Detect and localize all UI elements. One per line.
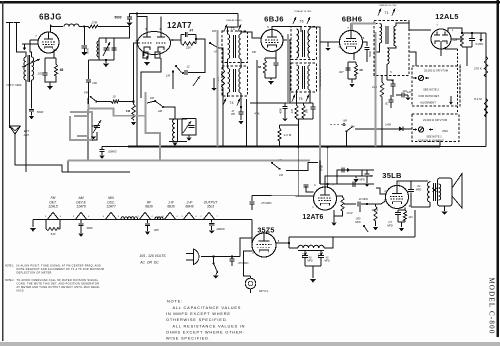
gray trace x320 <box>319 90 321 147</box>
text 105-125 VOLTS <box>139 254 166 258</box>
cap .25MFD <box>249 196 254 211</box>
wire 35Z5 out right <box>276 242 289 244</box>
filament label 12AT7 <box>106 196 116 208</box>
text see note 1 <box>426 135 442 139</box>
cap .005 fil <box>145 220 150 232</box>
wire T4 bottom out <box>228 93 242 107</box>
wire pilot feed <box>243 251 252 276</box>
junction 220 bus <box>381 145 383 147</box>
T3 core <box>233 35 235 58</box>
svg-text:47: 47 <box>370 174 373 178</box>
wire V2 gridA left <box>134 43 141 104</box>
ground railA cap <box>126 23 132 27</box>
resistor 270K <box>484 56 487 78</box>
label probe2 <box>460 86 462 98</box>
svg-text:EXT: EXT <box>24 129 30 133</box>
label 250MA <box>441 130 448 133</box>
T1 pin5 label <box>390 70 392 74</box>
resistor 280 T3 <box>221 60 224 147</box>
svg-text:12AL5: 12AL5 <box>435 12 458 21</box>
ground V6 k <box>331 223 337 226</box>
wire V2 plate loop <box>171 39 182 41</box>
align box A <box>412 66 460 106</box>
svg-text:NOTE 2.: NOTE 2. <box>5 279 15 282</box>
label 47 belowT1 <box>391 79 395 83</box>
resistor .27M <box>88 25 99 28</box>
label 470K rot <box>320 165 324 171</box>
text note2 block <box>5 279 100 293</box>
svg-text:MODEL C-800: MODEL C-800 <box>488 277 496 334</box>
V2 pin3 box <box>155 52 160 58</box>
loop antenna spiral inner <box>74 116 88 136</box>
svg-text:NOTE 1.: NOTE 1. <box>5 265 15 268</box>
wire y101 run2 <box>120 101 134 103</box>
plug cord <box>201 256 240 258</box>
wire V4 cathode <box>353 54 355 61</box>
svg-text:270 K: 270 K <box>474 67 482 71</box>
cap .01MFD V6 <box>358 198 368 207</box>
filament heater at 170 <box>165 212 176 219</box>
resistor 22K <box>181 42 196 46</box>
tune sym T3 <box>224 25 241 32</box>
ground fil left <box>30 228 36 232</box>
wire V1 grid left <box>30 39 38 41</box>
pin numbers fil <box>45 216 219 218</box>
OT primary coil <box>428 181 431 207</box>
label 5000 rot <box>86 47 90 54</box>
V2 triode A grid <box>142 42 152 44</box>
cap right branch <box>111 48 116 50</box>
V8 pin3 <box>398 182 400 186</box>
svg-text:510: 510 <box>51 232 56 236</box>
junction cap05 <box>231 255 233 257</box>
wire plug riser <box>240 238 252 256</box>
resistor 120 V8 <box>403 210 406 222</box>
svg-text:5000: 5000 <box>37 110 44 114</box>
tune sym T5 <box>292 95 309 102</box>
wire V3 screen down <box>283 40 290 103</box>
wire ext ant down <box>15 141 62 172</box>
svg-text:25,000 Ω OR VTVM: 25,000 Ω OR VTVM <box>424 69 449 73</box>
tube V4 6BH6 <box>340 31 363 54</box>
filament bus wire <box>33 219 252 221</box>
V2 pin8 box <box>143 52 148 58</box>
T4 primary coil <box>228 68 230 93</box>
wire y195 run <box>252 195 314 198</box>
wire y120 collect <box>297 119 314 125</box>
svg-text:ALIGNMENT: ALIGNMENT <box>420 101 436 105</box>
svg-text:TUNE AT 455KC.: TUNE AT 455KC. <box>226 19 243 22</box>
svg-text:22K: 22K <box>186 46 191 50</box>
svg-text:.02: .02 <box>417 184 421 188</box>
wire V3 k net <box>265 58 276 62</box>
ground arrow x214 <box>211 78 216 91</box>
border frame top <box>0 1 500 4</box>
wire y204 coupling <box>344 203 356 205</box>
label AT PRI <box>231 110 236 116</box>
cap 25MFD V8 <box>395 210 401 222</box>
osc coil <box>173 119 178 142</box>
wire L1 left top <box>17 23 27 58</box>
switch on y160 <box>271 162 281 170</box>
ground V8 k <box>399 228 405 231</box>
trimmer box frame <box>99 38 114 60</box>
cap 5000 antenna <box>29 109 34 115</box>
junction coup <box>366 203 368 205</box>
wire V5 diode lower <box>440 49 442 56</box>
line switch <box>213 257 219 274</box>
wire V3 k gnd <box>265 78 276 80</box>
svg-text:12: 12 <box>186 65 190 69</box>
svg-text:100,000Ω: 100,000Ω <box>460 64 462 74</box>
svg-text:120: 120 <box>402 89 407 93</box>
meter A <box>418 75 423 80</box>
svg-text:AT: AT <box>231 110 235 113</box>
label 470 rot <box>291 108 294 113</box>
label 5MFD <box>475 42 484 46</box>
coil in trimmer box <box>97 41 99 57</box>
meter B probes <box>413 128 433 131</box>
wire plate to coil <box>50 25 63 27</box>
arrow in box A <box>449 96 453 105</box>
text 25000 <box>424 69 449 73</box>
wire V2 cathodes gnd <box>144 50 147 60</box>
wire coupling on <box>361 203 374 205</box>
dashed probe line <box>457 49 459 112</box>
wire T3 top entry <box>227 29 229 34</box>
text tune T6 <box>294 10 312 13</box>
label 1M small <box>166 74 171 78</box>
cap V3 k <box>273 63 278 78</box>
wire V6 grid cap <box>306 161 320 193</box>
label 4000 rot <box>280 108 283 114</box>
svg-text:+: + <box>302 252 304 256</box>
svg-text:35LB: 35LB <box>382 171 402 180</box>
svg-text:470K: 470K <box>320 165 324 171</box>
T6 dashed box <box>291 27 317 60</box>
text tune T1 <box>379 4 398 7</box>
wire x298 feeder <box>297 147 299 196</box>
svg-text:.01 MFD: .01 MFD <box>355 179 365 182</box>
V7 pin1 <box>252 251 254 255</box>
ground V3 <box>268 81 274 85</box>
wire caps common <box>305 266 321 278</box>
label AM sw1 <box>213 50 219 54</box>
svg-text:.5 MFD: .5 MFD <box>475 42 484 46</box>
text AC OR DC <box>139 261 159 265</box>
T5 core <box>302 66 304 89</box>
wire y101 run <box>96 101 111 103</box>
loop antenna spiral outer <box>70 112 92 140</box>
svg-text:ANT.: ANT. <box>23 133 30 137</box>
tube V7 35Z5 <box>252 233 276 257</box>
label 22K V5 <box>452 38 458 42</box>
svg-text:MFD: MFD <box>355 221 361 224</box>
wire s2 <box>147 101 175 119</box>
gray trace y160 <box>68 160 310 162</box>
ground V1 cathode <box>47 86 53 90</box>
ground 47 deemph <box>364 184 370 187</box>
wire top rail A <box>130 13 239 15</box>
wire V4 plate up <box>351 24 378 31</box>
label 47 deemph <box>370 174 373 178</box>
wire x327 to tube <box>327 184 329 188</box>
osc trimmer <box>193 76 200 86</box>
wire V4 screen right <box>363 42 368 46</box>
svg-text:12AT6: 12AT6 <box>302 214 323 221</box>
V7 pin3 <box>267 229 269 233</box>
svg-text:AT METER AND TUNE OUTPUT DETEC: AT METER AND TUNE OUTPUT DETECT UNTIL MA… <box>17 286 101 289</box>
meter B <box>418 127 423 132</box>
wire x257 feeder <box>256 60 258 147</box>
tune sym T6 <box>293 17 310 24</box>
diode sym <box>399 126 403 131</box>
svg-text:6BJG: 6BJG <box>39 13 62 22</box>
resistor 68 V3 <box>263 58 266 78</box>
gray trace 6bh6 plate <box>352 24 376 30</box>
label 100 series <box>92 81 97 85</box>
wire V1 cathode gnd <box>49 82 51 86</box>
ground v6 plate side <box>353 176 359 182</box>
V8 pin4 <box>384 189 386 193</box>
wire osc down <box>199 60 205 73</box>
junction plug sw <box>212 255 214 257</box>
osc padder box <box>182 119 196 136</box>
svg-text:MFD: MFD <box>307 260 312 263</box>
cap 4000 T5 <box>282 103 287 122</box>
junction v5b <box>471 32 473 34</box>
svg-text:12AT6: 12AT6 <box>76 205 86 209</box>
svg-text:.005: .005 <box>153 228 159 232</box>
wire step mid <box>286 163 318 171</box>
label FM sw1 <box>212 29 217 33</box>
T1 dashed box <box>374 21 409 76</box>
svg-text:12AT7: 12AT7 <box>106 205 116 209</box>
label FM sw6 <box>351 125 356 129</box>
trimmer box bottom gnd <box>103 60 109 67</box>
text note1 block <box>5 265 104 275</box>
wire x320 feeder <box>319 35 321 147</box>
ground loop <box>91 137 96 140</box>
svg-text:2.2 M: 2.2 M <box>284 133 292 137</box>
svg-text:MFD: MFD <box>416 188 422 192</box>
V4 pin1 <box>338 45 340 49</box>
svg-text:18K: 18K <box>305 108 308 113</box>
wire y237 up right <box>414 210 416 237</box>
tube V1 6BJ6 label <box>39 13 62 22</box>
cap 5MFD <box>469 33 475 47</box>
tube V3 6BJ6 <box>261 30 283 52</box>
svg-text:6BH6: 6BH6 <box>185 205 193 209</box>
junction T4 bus <box>245 145 247 147</box>
svg-text:105 - 125 VOLTS: 105 - 125 VOLTS <box>139 254 166 258</box>
wire left of 12AT6 <box>301 188 303 195</box>
svg-text:SEE NOTE 2: SEE NOTE 2 <box>423 88 439 92</box>
tube V5 12AL5 <box>431 29 451 49</box>
tube V3 6BJ6 label <box>264 15 284 24</box>
svg-text:35L6: 35L6 <box>207 205 215 209</box>
wire T1 tert bottom <box>386 64 388 80</box>
T4 bottom cap <box>238 107 243 120</box>
tube V4 6BH6 label <box>342 15 363 24</box>
wire dipole left <box>9 23 11 129</box>
plug prongs <box>186 254 194 261</box>
svg-text:68: 68 <box>258 65 262 69</box>
svg-text:#47 P.L.: #47 P.L. <box>259 289 269 293</box>
antenna coil L1 secondary <box>24 57 26 80</box>
wire probe stub <box>445 47 458 49</box>
svg-text:FM: FM <box>212 29 217 33</box>
svg-text:+: + <box>318 252 320 256</box>
wire T3 top rail <box>228 14 239 35</box>
T6 secondary coil <box>308 29 310 58</box>
svg-text:6BJ6: 6BJ6 <box>264 15 284 24</box>
svg-text:3000: 3000 <box>86 226 93 230</box>
svg-text:TUNE AT 10.7MC.: TUNE AT 10.7MC. <box>294 10 312 13</box>
label 68 <box>60 68 64 72</box>
label 120 belowT1 <box>407 90 412 94</box>
wire loop conn <box>92 126 97 140</box>
svg-text:MFD: MFD <box>387 225 393 228</box>
wire y237 Bplus <box>289 237 415 248</box>
avc arrow down <box>23 44 27 51</box>
tube V1 6BJ6 <box>38 32 59 53</box>
label 2.2M right <box>474 97 482 101</box>
text alignment A <box>420 101 436 105</box>
gray trace t1 col <box>375 32 377 147</box>
V3 pin6 <box>282 35 284 39</box>
label 20mfd <box>215 228 224 231</box>
junction 22m bus <box>278 145 280 147</box>
label 68 V3 <box>258 65 262 69</box>
long wire y160 cont <box>280 165 310 167</box>
label 47K <box>254 112 259 116</box>
junction T4 bot <box>240 106 242 108</box>
label .120 <box>402 89 407 93</box>
switch S2 lever <box>154 100 164 108</box>
dipole top bars <box>6 22 20 24</box>
label 2.2M mid <box>284 133 292 137</box>
OT secondary coil <box>439 184 441 200</box>
svg-text:22K: 22K <box>452 38 458 42</box>
svg-text:47: 47 <box>391 79 395 83</box>
wire 220 bottom <box>381 98 383 147</box>
label 5000 ant <box>37 110 44 114</box>
T4 secondary coil <box>239 68 241 93</box>
junction feeder x137 bus <box>136 145 138 147</box>
wire V8 k common <box>398 210 405 227</box>
gray trace v2 cathode <box>146 92 161 133</box>
wire diode into B <box>355 128 412 130</box>
svg-text:1/4M: 1/4M <box>385 123 392 127</box>
wire x320 to dot <box>320 183 328 185</box>
capacitor 100 in V1 cathode <box>42 70 47 78</box>
wire T3T4 join <box>228 59 242 68</box>
T1 secondary coil <box>394 26 396 46</box>
wire T3 sec to V3 <box>241 32 261 38</box>
svg-text:470: 470 <box>291 108 294 113</box>
wire V4 grid left <box>325 41 332 43</box>
osc coil gnd <box>172 143 178 146</box>
V2 pin2 <box>172 38 174 42</box>
wire V1 plate up <box>49 25 51 33</box>
pilot lamp <box>245 276 256 289</box>
filament heater at 189 <box>184 212 195 219</box>
svg-text:1M: 1M <box>126 109 131 113</box>
wire switch to T3 <box>218 48 223 60</box>
meter A probes <box>413 77 429 80</box>
svg-text:6BH6: 6BH6 <box>342 15 363 24</box>
wire V6 k <box>334 196 343 222</box>
cap .007 V4 <box>345 68 350 70</box>
svg-text:.02MFD: .02MFD <box>108 151 117 154</box>
T6 core <box>302 30 304 57</box>
wire V4 gnd stub <box>327 42 329 47</box>
V8 pin5 <box>384 199 386 203</box>
text 23000 <box>423 118 448 122</box>
dashed avc line <box>330 124 342 126</box>
tube V6 12AT6 <box>314 187 337 210</box>
T5 dashed box <box>291 63 317 92</box>
align box B <box>412 114 459 142</box>
label 6M <box>277 158 284 177</box>
svg-text:.05 MFD: .05 MFD <box>238 261 249 265</box>
junction T3 bus <box>222 145 224 147</box>
junction 6M bus <box>345 145 347 147</box>
junction x327 y184 <box>327 183 329 185</box>
junction bus x260 <box>256 145 258 147</box>
cap 80MFD <box>302 251 308 267</box>
svg-text:INGS.: INGS. <box>17 290 25 293</box>
ground 1M <box>131 122 137 125</box>
cap .01 on y184 <box>353 179 365 187</box>
wire V1 avc left with arrow <box>22 43 38 45</box>
wire y124 run <box>280 125 299 147</box>
filament label 12AT6 <box>76 196 86 208</box>
main B- bus <box>128 146 440 148</box>
mixer switch <box>90 96 98 103</box>
text see note 2 <box>423 88 439 92</box>
tube V8 35L6 label <box>382 171 402 180</box>
label 68 V4 <box>359 68 363 72</box>
wire T1 sec bottom <box>387 46 396 48</box>
wire feeder x137 <box>136 14 138 147</box>
wire V8 screen <box>376 188 386 194</box>
wire res to corner <box>99 26 130 28</box>
wire choke line <box>289 237 333 251</box>
antenna coil L1 primary <box>32 57 34 80</box>
ground 20mfd <box>209 231 215 234</box>
border frame bottom gray bar <box>0 342 500 346</box>
border frame right <box>497 0 499 337</box>
T5 secondary coil <box>308 65 310 90</box>
wire T5 bottom leads <box>297 90 311 103</box>
label 120 V8 <box>408 215 413 219</box>
label 10 osc <box>112 95 116 99</box>
V5 pin1 <box>452 28 454 32</box>
T1 core <box>386 26 388 44</box>
junction v5a <box>461 32 463 34</box>
filament heater at 81 <box>76 212 87 219</box>
wire coil to res <box>79 26 88 28</box>
cap .02MFD on left <box>99 147 104 156</box>
label .05 rot <box>386 102 389 106</box>
wire T1 sec top <box>396 23 431 30</box>
speaker cone <box>452 174 462 209</box>
resistor 2.2M mid <box>278 125 281 147</box>
tune sym T4 <box>223 99 240 106</box>
tune sym T1 <box>378 9 395 16</box>
